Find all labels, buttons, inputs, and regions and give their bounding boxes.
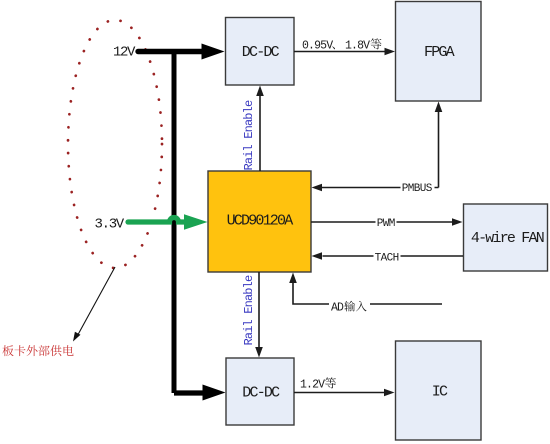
label: 板卡外部供电 (red) [2, 345, 13, 356]
svg-text:PMBUS: PMBUS [402, 183, 433, 195]
annotation arrow to 板卡外部供电 [78, 267, 116, 336]
wire: 12V thick horizontal to DC-DC [138, 49, 202, 54]
wire: thick elbow to bottom DC-DC [174, 390, 203, 395]
wire: 3.3V green arrow into UCD90120A (hops over bus) [128, 218, 185, 223]
svg-text:3.3V: 3.3V [95, 216, 125, 232]
svg-text:0.95V: 0.95V [302, 39, 333, 52]
svg-text:AD: AD [331, 302, 344, 315]
block: IC [396, 341, 482, 440]
svg-text:4-wire FAN: 4-wire FAN [471, 230, 544, 247]
block: UCD90120A power controller [208, 171, 311, 272]
wire: Rail Enable down (UCD to bottom DC-DC) [258, 272, 260, 347]
svg-text:DC-DC: DC-DC [242, 44, 280, 61]
block: 4-wire FAN [464, 204, 548, 271]
svg-text:IC: IC [432, 384, 448, 401]
wire: Rail Enable up (UCD to top DC-DC) [259, 96, 261, 171]
svg-text:FPGA: FPGA [424, 44, 455, 61]
svg-text:UCD90120A: UCD90120A [227, 213, 294, 230]
block: DC-DC (top) [226, 18, 295, 86]
wire: bottom DC-DC to IC (1.2V rail) [294, 392, 384, 394]
block: DC-DC (bottom) [226, 358, 294, 425]
svg-text:1.2V: 1.2V [300, 379, 325, 392]
wire: PMBUS (UCD - FPGA) [438, 112, 440, 188]
svg-text:TACH: TACH [375, 252, 399, 264]
svg-text:1.8V: 1.8V [345, 39, 370, 52]
wire: AD input into UCD bottom [293, 283, 442, 304]
svg-text:DC-DC: DC-DC [242, 385, 280, 402]
block: FPGA [396, 2, 482, 102]
svg-text:12V: 12V [113, 45, 136, 61]
svg-text:PWM: PWM [377, 218, 395, 230]
wire: PWM (UCD to FAN) [311, 221, 452, 223]
wire: 12V thick vertical bus [172, 49, 177, 393]
wire: DC-DC to FPGA (0.95V/1.8V rails) [294, 51, 385, 53]
svg-text:Rail Enable: Rail Enable [242, 275, 256, 346]
wire: TACH (FAN to UCD) [323, 255, 464, 257]
dotted ellipse: external power boundary [68, 20, 162, 268]
svg-text:Rail Enable: Rail Enable [242, 100, 256, 171]
